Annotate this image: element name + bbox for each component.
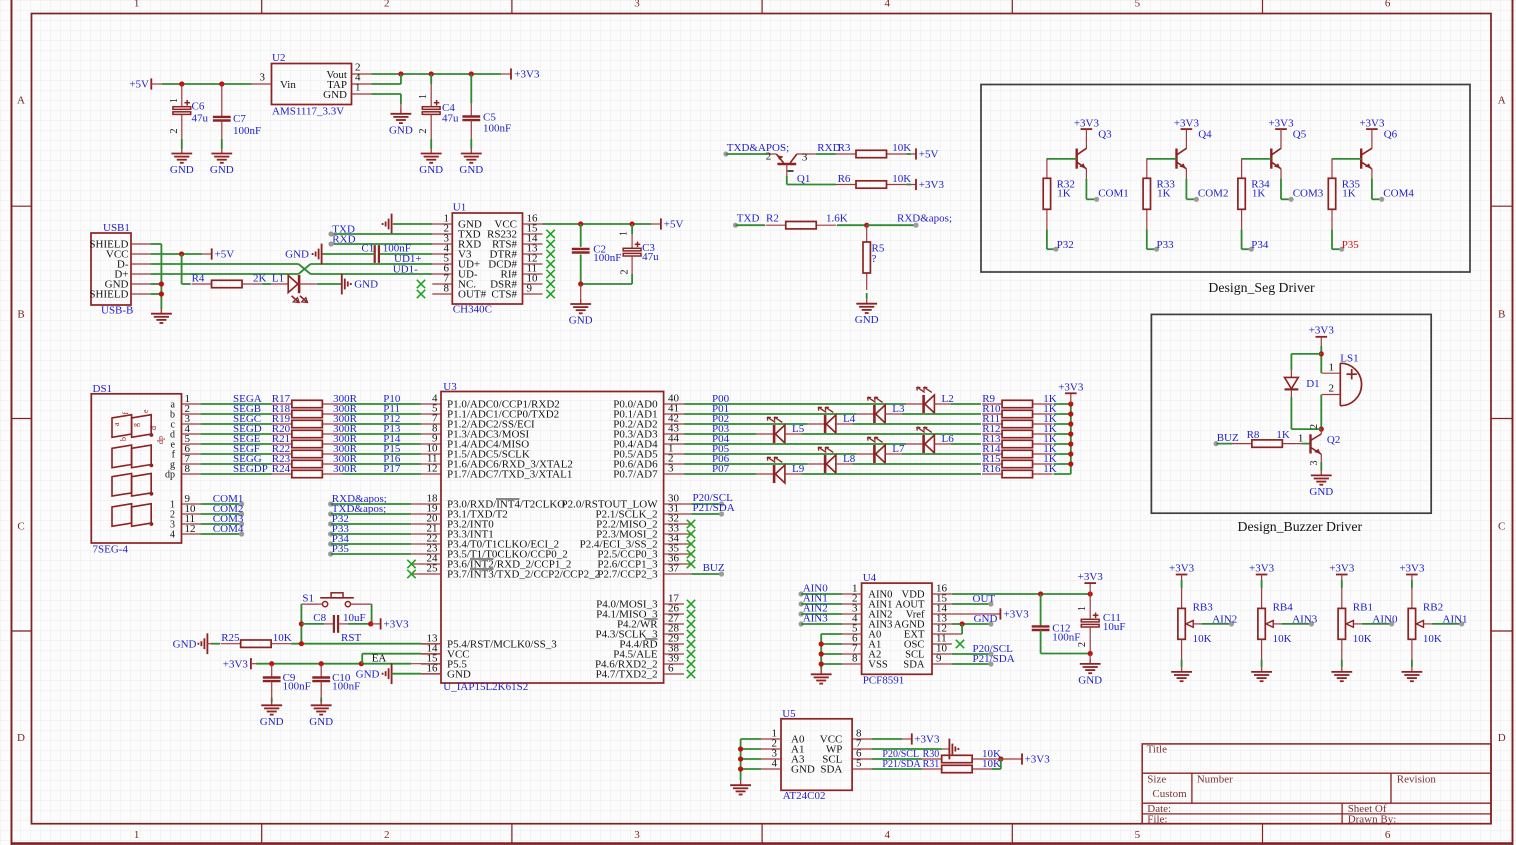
transistor Q3 NPN	[1077, 129, 1112, 170]
svg-text:S1: S1	[302, 592, 314, 604]
svg-text:Design_Seg Driver: Design_Seg Driver	[1208, 280, 1315, 295]
transistor Q1 PNP	[766, 151, 816, 185]
svg-text:L2: L2	[942, 393, 954, 405]
svg-text:R4: R4	[192, 272, 205, 284]
svg-text:2: 2	[169, 129, 180, 134]
svg-text:COM2: COM2	[1198, 188, 1229, 200]
wire P05 row	[684, 443, 1071, 455]
svg-text:AIN3: AIN3	[1292, 613, 1318, 625]
svg-text:2: 2	[384, 829, 390, 841]
svg-text:e: e	[141, 409, 150, 413]
svg-text:P21/SDA: P21/SDA	[882, 759, 921, 770]
wire Q3 base	[1047, 158, 1077, 160]
LED L6	[906, 427, 954, 453]
node P32 (U3)	[328, 513, 411, 526]
power flag +5V (USB)	[212, 248, 235, 260]
power flag +3V3 (RB4)	[1249, 563, 1275, 575]
svg-text:5: 5	[1135, 0, 1141, 10]
node UD1-	[393, 263, 418, 275]
svg-text:Drawn By:: Drawn By:	[1348, 814, 1397, 826]
svg-text:GND: GND	[285, 249, 309, 261]
svg-text:1K: 1K	[1057, 188, 1071, 200]
svg-text:Design_Buzzer Driver: Design_Buzzer Driver	[1238, 519, 1363, 534]
svg-text:+3V3: +3V3	[1169, 563, 1195, 575]
wire Q6 emitter to COM4	[1372, 169, 1382, 200]
svg-text:R8: R8	[1247, 429, 1260, 441]
power flag +3V3 (U5)	[912, 733, 940, 745]
IC U3 U_IAP15L2K61S2	[411, 381, 691, 693]
svg-text:RXD&apos;: RXD&apos;	[897, 213, 952, 225]
svg-text:R3: R3	[838, 142, 851, 154]
node AIN3 (RB4 wiper)	[1292, 613, 1318, 626]
wire Q3 emitter to COM1	[1086, 169, 1096, 200]
title block	[1142, 744, 1491, 826]
IC U5 AT24C02	[761, 708, 872, 802]
wire P04 row	[684, 433, 1071, 445]
svg-text:RB3: RB3	[1193, 602, 1214, 614]
svg-text:2: 2	[1077, 642, 1088, 647]
svg-text:2: 2	[766, 151, 772, 163]
wire U2 TAP tie	[372, 74, 401, 84]
ground flag (U1 pin1)	[383, 214, 433, 235]
no-connect X U3 pins 32-36	[687, 520, 695, 568]
wire Q5 emitter to COM3	[1281, 169, 1291, 200]
resistor R25 10K	[207, 632, 291, 647]
svg-text:+5V: +5V	[664, 219, 684, 231]
wire seg row SEGDP	[200, 463, 441, 475]
svg-text:AIN0: AIN0	[1372, 613, 1398, 625]
wire U1 VCC to +5V	[543, 221, 661, 226]
LED L2	[906, 387, 954, 413]
svg-text:GND: GND	[419, 164, 443, 176]
svg-text:100nF: 100nF	[483, 123, 511, 135]
transistor Q4 NPN	[1177, 129, 1213, 170]
svg-text:1: 1	[134, 829, 140, 841]
svg-text:C: C	[1498, 521, 1505, 533]
svg-text:GND: GND	[389, 124, 413, 136]
ground (C6)	[170, 149, 194, 177]
svg-text:L9: L9	[792, 463, 805, 475]
node P20/SCL (U3)	[691, 492, 733, 506]
node COM4	[200, 523, 244, 536]
svg-text:25: 25	[427, 563, 439, 575]
wire Q4 base	[1147, 158, 1177, 160]
capacitor C4 47u	[418, 74, 459, 149]
svg-text:+3V3: +3V3	[1078, 571, 1104, 583]
svg-text:100nF: 100nF	[383, 243, 411, 255]
svg-text:5: 5	[856, 758, 862, 770]
svg-text:GND: GND	[855, 314, 879, 326]
capacitor C2 100nF	[572, 224, 622, 284]
wire R35 lower to P35	[1332, 229, 1342, 249]
power flag +5V (U1)	[661, 218, 684, 230]
resistor R30 10K	[922, 748, 1001, 763]
svg-text:GND: GND	[210, 164, 234, 176]
ground flag (U3 pin16)	[356, 663, 441, 684]
capacitor C11 10uF	[1077, 594, 1126, 654]
no-connect X U1 pins 15-9	[546, 230, 554, 298]
wire D+ crossing	[150, 264, 432, 274]
svg-text:+3V3: +3V3	[1174, 117, 1200, 129]
IC U1 CH340C	[432, 202, 542, 316]
wire Q4 emitter to COM2	[1186, 169, 1196, 200]
svg-text:L4: L4	[843, 413, 856, 425]
svg-text:P33: P33	[1157, 239, 1175, 251]
wire AGND to EXT	[961, 624, 963, 634]
wire +5V to R4	[182, 254, 191, 284]
resistor R14 1K	[982, 443, 1057, 457]
svg-text:C1: C1	[361, 243, 374, 255]
wire P02 row	[684, 413, 1071, 425]
svg-text:+3V3: +3V3	[1025, 753, 1051, 765]
wire Q1 base row	[787, 184, 836, 186]
ground (C10)	[309, 700, 333, 728]
wire R33 lower to P33	[1147, 229, 1157, 249]
wire S1 right leg	[371, 604, 373, 624]
wire Q5 base	[1242, 158, 1272, 160]
svg-text:Title: Title	[1147, 744, 1168, 756]
wire U5 VCC to +3V3	[872, 738, 912, 740]
svg-text:P32: P32	[1057, 239, 1074, 251]
wire RST row	[291, 632, 441, 646]
svg-text:8: 8	[185, 463, 191, 475]
wire R34 lower to P34	[1242, 229, 1252, 249]
capacitor C7 100nF	[213, 84, 261, 149]
svg-text:+3V3: +3V3	[223, 658, 249, 670]
svg-text:4: 4	[772, 758, 778, 770]
svg-text:D1: D1	[1306, 378, 1319, 390]
svg-text:8: 8	[444, 282, 450, 294]
node COM3	[200, 513, 244, 526]
svg-text:C8: C8	[313, 612, 326, 624]
svg-text:10K: 10K	[892, 173, 911, 185]
wire VCC to +5V	[150, 251, 211, 256]
svg-text:GND: GND	[173, 638, 197, 650]
power flag +3V3 (U2 out)	[511, 68, 540, 80]
svg-text:SDA: SDA	[820, 764, 842, 776]
node OUT (U4 AOUT)	[952, 593, 995, 606]
svg-text:UD1-: UD1-	[393, 263, 418, 275]
wire U2 GND down	[372, 94, 401, 114]
ground flag (L1)	[342, 274, 378, 295]
svg-text:P1.7/ADC7/TXD_3/XTAL1: P1.7/ADC7/TXD_3/XTAL1	[447, 469, 572, 481]
wire L1 to gnd flag	[317, 283, 342, 285]
wire EA row +3V3	[256, 652, 441, 666]
wire U4 address pins to gnd	[819, 634, 842, 674]
svg-text:COM1: COM1	[1098, 188, 1129, 200]
node AIN1 (U4)	[799, 593, 843, 607]
svg-text:+3V3: +3V3	[1329, 563, 1355, 575]
node COM1	[200, 493, 244, 506]
svg-text:GND: GND	[459, 164, 483, 176]
svg-text:GND: GND	[260, 716, 284, 728]
power flag +3V3 (RB2)	[1399, 563, 1425, 575]
wire P07 row	[684, 463, 1071, 475]
power flag +3V3 (buzzer)	[1309, 325, 1335, 337]
node TXD&apos; (U3)	[328, 503, 411, 516]
wire TXD&apos; to Q1 emitter	[726, 153, 769, 155]
svg-text:AMS1117_3.3V: AMS1117_3.3V	[272, 106, 344, 118]
ground (RB3)	[1171, 667, 1192, 681]
svg-text:4: 4	[884, 0, 890, 10]
wire +5V to U2 Vin	[162, 81, 252, 86]
power flag +3V3 (LED bus)	[1058, 381, 1084, 393]
power flag +3V3 (Q6)	[1359, 117, 1385, 129]
svg-text:1K: 1K	[1342, 188, 1356, 200]
svg-text:RB1: RB1	[1353, 602, 1373, 614]
svg-text:1: 1	[169, 98, 180, 103]
svg-text:5: 5	[1135, 829, 1141, 841]
svg-text:GND: GND	[569, 315, 593, 327]
svg-text:2: 2	[1309, 424, 1320, 429]
svg-text:Q4: Q4	[1198, 129, 1212, 141]
svg-text:a: a	[112, 422, 121, 426]
node AIN3 (U4)	[799, 613, 843, 627]
svg-text:+3V3: +3V3	[1399, 563, 1425, 575]
power flag +3V3 (Q3)	[1074, 117, 1100, 129]
svg-text:R16: R16	[982, 463, 1001, 475]
wire P00 row	[684, 393, 1071, 405]
ground (C7)	[210, 149, 234, 177]
svg-text:300R: 300R	[333, 463, 358, 475]
svg-text:Q1: Q1	[797, 173, 810, 185]
ground (U5)	[730, 780, 751, 794]
wire D- crossing	[150, 264, 432, 274]
wire P03 row	[684, 423, 1071, 435]
svg-text:USB-B: USB-B	[101, 304, 133, 316]
wire VCC riser (U3 pin14)	[362, 654, 441, 664]
svg-text:L1: L1	[272, 273, 284, 285]
wire U4 VDD to +3V3	[952, 583, 1093, 597]
power flag +3V3 (R6)	[916, 179, 944, 191]
wire C2/C3 gnd bus	[578, 281, 632, 304]
svg-text:Q6: Q6	[1384, 129, 1398, 141]
svg-text:2K: 2K	[253, 272, 267, 284]
svg-text:U1: U1	[453, 202, 466, 214]
svg-text:L8: L8	[843, 453, 856, 465]
svg-text:1: 1	[1077, 606, 1088, 611]
svg-text:3: 3	[668, 463, 674, 475]
regulator U2 AMS1117_3.3V	[252, 52, 372, 118]
ground flag (C1)	[285, 244, 321, 265]
svg-text:4: 4	[170, 529, 175, 540]
wire USB shield/gnd bus	[150, 244, 164, 314]
svg-text:U_IAP15L2K61S2: U_IAP15L2K61S2	[443, 681, 528, 693]
svg-text:U2: U2	[272, 52, 285, 64]
power flag +3V3 (EA row)	[223, 658, 256, 670]
svg-text:10uF: 10uF	[343, 612, 366, 624]
svg-text:L3: L3	[892, 403, 905, 415]
power flag +5V (R3)	[916, 148, 939, 160]
buzzer LS1	[1322, 352, 1362, 405]
transistor Q2 NPN	[1298, 424, 1340, 471]
svg-text:P21/SDA: P21/SDA	[973, 653, 1015, 665]
resistor R6 10K	[836, 173, 916, 188]
node COM2	[200, 503, 244, 516]
svg-text:3: 3	[260, 72, 266, 84]
ground flag (U5 WP)	[949, 739, 958, 760]
node P21/SDA (U4)	[952, 653, 1015, 666]
wire seg row SEGC	[200, 413, 441, 425]
svg-text:+3V3: +3V3	[1074, 117, 1100, 129]
power flag +3V3 (Q4)	[1174, 117, 1200, 129]
resistor R16 1K	[982, 463, 1057, 477]
svg-text:1: 1	[355, 82, 361, 94]
svg-text:A: A	[1498, 95, 1506, 107]
ground (Q2)	[1309, 470, 1333, 498]
connector USB1 USB-B	[89, 222, 150, 316]
LED L7	[857, 437, 905, 463]
ground (U1 caps)	[569, 299, 593, 327]
power flag +3V3 (RB1)	[1329, 563, 1355, 575]
display DS1 7SEG-4	[91, 383, 200, 556]
capacitor C12 100nF	[1032, 594, 1081, 654]
node P32	[1053, 239, 1073, 252]
resistor R13 1K	[982, 433, 1057, 447]
resistor R18 300R	[272, 403, 358, 417]
wire P06 row	[684, 453, 1071, 465]
svg-text:1K: 1K	[1043, 463, 1057, 475]
node COM1	[1094, 188, 1129, 202]
wire Q6 base	[1332, 158, 1361, 160]
node AIN2 (RB3 wiper)	[1212, 613, 1237, 626]
svg-text:OUT: OUT	[973, 593, 996, 605]
svg-text:TXD: TXD	[737, 213, 760, 225]
svg-text:SDA: SDA	[903, 660, 925, 671]
potentiometer RB4 10K	[1258, 575, 1312, 667]
node P33 (U3)	[328, 523, 411, 536]
svg-text:g: g	[131, 423, 140, 427]
svg-text:2: 2	[1329, 382, 1335, 394]
ground (RB4)	[1251, 667, 1272, 681]
capacitor C9 100nF	[263, 664, 311, 703]
svg-text:R25: R25	[221, 632, 240, 644]
svg-text:+5V: +5V	[919, 149, 939, 161]
node P21/SDA (U3)	[691, 502, 734, 516]
IC U4 PCF8591	[842, 572, 962, 687]
svg-text:10uF: 10uF	[1103, 621, 1126, 633]
svg-text:BUZ: BUZ	[1217, 432, 1239, 444]
svg-text:1K: 1K	[1252, 188, 1266, 200]
svg-text:GND: GND	[974, 613, 998, 625]
svg-text:D: D	[17, 732, 25, 744]
svg-text:VSS: VSS	[868, 660, 888, 671]
svg-text:PCF8591: PCF8591	[863, 675, 905, 687]
no-connect X U1 pins 7,8	[417, 280, 425, 298]
svg-text:Q3: Q3	[1098, 129, 1112, 141]
capacitor C1 100nF	[322, 243, 433, 263]
node P20/SCL (U4)	[952, 643, 1013, 656]
svg-text:Q2: Q2	[1327, 434, 1340, 446]
svg-text:1K: 1K	[1157, 188, 1171, 200]
power flag +3V3 (RB3)	[1169, 563, 1195, 575]
node RXD (Q1 collector)	[816, 142, 841, 154]
node AIN2 (U4)	[799, 603, 843, 617]
svg-text:File:: File:	[1147, 814, 1167, 826]
svg-text:+3V3: +3V3	[514, 69, 540, 81]
LED L5	[757, 417, 805, 443]
svg-text:dp: dp	[156, 436, 165, 444]
wire C12/C11 gnd bus	[1041, 651, 1093, 664]
resistor R2 1.6K	[736, 213, 867, 229]
svg-text:GND: GND	[323, 89, 347, 101]
svg-text:CTS#: CTS#	[491, 289, 517, 301]
svg-text:GND: GND	[1309, 486, 1333, 498]
svg-text:+3V3: +3V3	[1249, 563, 1275, 575]
ground (RB2)	[1402, 667, 1423, 681]
node P34 (U3)	[328, 533, 411, 546]
svg-text:100nF: 100nF	[593, 252, 621, 264]
svg-text:B: B	[1498, 308, 1505, 320]
ground (C9)	[260, 700, 284, 728]
svg-text:GND: GND	[170, 164, 194, 176]
svg-text:Q5: Q5	[1293, 129, 1307, 141]
potentiometer RB2 10K	[1408, 575, 1462, 667]
svg-text:L5: L5	[792, 423, 805, 435]
svg-text:P2.7/CCP2_3: P2.7/CCP2_3	[597, 569, 658, 581]
resistor R17 300R	[272, 393, 358, 407]
svg-text:SHIELD: SHIELD	[89, 289, 128, 301]
svg-text:10K: 10K	[273, 632, 292, 644]
svg-text:+3V3: +3V3	[1359, 117, 1385, 129]
resistor R32 1K	[1043, 158, 1075, 229]
svg-text:10K: 10K	[1193, 633, 1212, 645]
node RXD&apos; (U3)	[328, 493, 411, 506]
svg-text:RB2: RB2	[1423, 602, 1443, 614]
node UD1+	[394, 253, 422, 265]
svg-text:9: 9	[527, 282, 533, 294]
Design_Seg Driver box	[981, 85, 1470, 296]
svg-text:10K: 10K	[1273, 633, 1292, 645]
svg-text:+3V3: +3V3	[384, 619, 410, 631]
svg-text:+3V3: +3V3	[1268, 117, 1294, 129]
svg-text:1: 1	[134, 0, 140, 10]
svg-text:R31: R31	[923, 759, 940, 770]
svg-text:f: f	[121, 412, 130, 415]
node P35 (U3)	[328, 543, 411, 556]
no-connect X U3 P4 pins	[687, 600, 695, 678]
svg-text:10K: 10K	[1353, 633, 1372, 645]
svg-text:Vin: Vin	[280, 79, 296, 91]
LED L1	[271, 273, 317, 303]
svg-text:U4: U4	[863, 572, 877, 584]
svg-text:BUZ: BUZ	[703, 562, 725, 574]
wire node RXD&apos;	[864, 213, 952, 228]
svg-text:6: 6	[1385, 829, 1391, 841]
power flag +5V (input)	[129, 78, 162, 90]
resistor R12 1K	[982, 423, 1057, 437]
svg-text:Revision: Revision	[1397, 774, 1437, 786]
svg-text:DS1: DS1	[93, 383, 113, 395]
node AIN0 (RB1 wiper)	[1372, 613, 1398, 626]
svg-text:Size: Size	[1147, 774, 1166, 786]
svg-text:3: 3	[1309, 461, 1320, 466]
wire P01 row	[684, 403, 1071, 415]
svg-text:7SEG-4: 7SEG-4	[93, 544, 129, 556]
svg-text:C7: C7	[233, 113, 246, 125]
svg-text:AIN2: AIN2	[1212, 613, 1237, 625]
svg-text:dp: dp	[165, 469, 175, 480]
power flag +3V3 (C8)	[381, 618, 410, 630]
svg-text:P34: P34	[1251, 239, 1269, 251]
svg-text:d: d	[149, 426, 158, 430]
resistor R35 1K	[1328, 158, 1360, 229]
ground (C4)	[419, 149, 443, 177]
svg-text:47u: 47u	[442, 113, 459, 125]
resistor R5 ?	[863, 225, 885, 299]
svg-text:RST: RST	[341, 632, 361, 644]
ground (R5)	[855, 299, 879, 327]
